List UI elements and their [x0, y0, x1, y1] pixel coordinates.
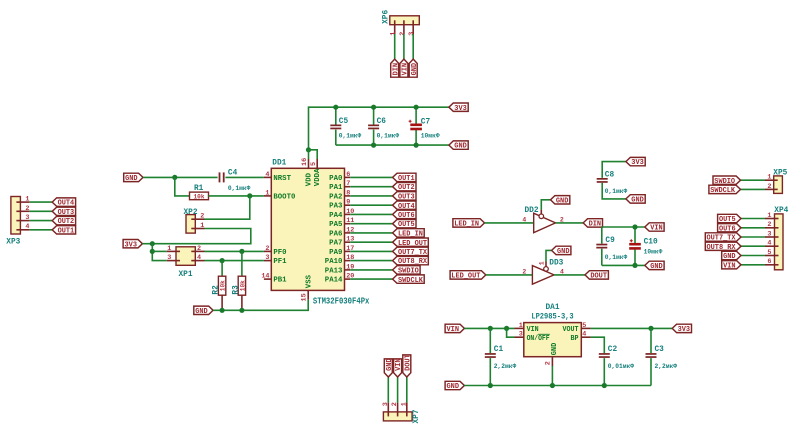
wire GND rail to VSS — [213, 300, 308, 311]
junction — [648, 326, 653, 331]
svg-text:DA1: DA1 — [545, 304, 559, 312]
wire GND rail — [602, 264, 645, 266]
svg-text:SWDCLK: SWDCLK — [398, 277, 424, 285]
svg-text:3: 3 — [767, 230, 771, 238]
net flag LED_OUT (DD3 in) — [450, 271, 486, 281]
connector XP2 — [184, 209, 205, 233]
net flag DOUT (DD3 out) — [585, 271, 608, 281]
wire — [603, 358, 605, 385]
wire 3V3 to XP1 pin1 — [152, 250, 167, 252]
wire PA to SWDCLK — [350, 278, 392, 280]
net flag OUT5 — [393, 220, 416, 230]
wire VIN to DA1 — [464, 327, 514, 329]
svg-text:15: 15 — [301, 293, 309, 301]
wire PA to OUT4 — [350, 204, 392, 206]
svg-text:ON/OFF: ON/OFF — [527, 335, 550, 343]
resistor R3 — [232, 276, 247, 310]
wire XP3 pin1 — [30, 201, 53, 203]
junction — [414, 143, 419, 148]
net flag VIN (XP4) — [722, 261, 741, 271]
wire DA1 gnd pin — [551, 366, 553, 386]
wire GND to XP4 — [741, 255, 765, 257]
svg-text:6: 6 — [346, 171, 350, 179]
svg-text:PA6: PA6 — [329, 230, 342, 238]
svg-text:DOUT: DOUT — [404, 354, 412, 371]
ground flag GND (DD2) — [551, 196, 570, 206]
wire — [415, 107, 417, 124]
svg-text:2: 2 — [200, 213, 204, 221]
ground flag GND (XP7) — [384, 358, 394, 377]
svg-text:4: 4 — [582, 331, 586, 339]
svg-text:GND: GND — [631, 197, 644, 205]
svg-text:VIN: VIN — [527, 326, 539, 334]
svg-text:10k: 10k — [194, 193, 205, 201]
svg-text:XP4: XP4 — [774, 207, 788, 215]
IC DD1 STM32F030F4Px — [261, 159, 370, 306]
svg-text:VSS: VSS — [305, 275, 313, 288]
wire SWDCLK to XP5 — [741, 188, 766, 190]
svg-text:LP2985-3,3: LP2985-3,3 — [531, 312, 573, 321]
resistor R2 — [213, 276, 228, 310]
svg-text:6: 6 — [767, 258, 771, 266]
net flag SWDIO — [393, 266, 421, 276]
wire — [489, 328, 491, 353]
wire VDD — [308, 150, 310, 159]
svg-text:1: 1 — [519, 322, 523, 330]
ground flag GND (DD3) — [552, 246, 571, 256]
wire 3V3 flag — [142, 243, 152, 245]
wire to ON/OFF — [507, 328, 515, 337]
svg-text:XP1: XP1 — [179, 271, 193, 279]
wire PA to OUT6 — [350, 213, 392, 215]
svg-text:OUT1: OUT1 — [58, 227, 75, 235]
svg-text:3: 3 — [25, 214, 29, 222]
junction — [488, 383, 493, 388]
svg-text:1: 1 — [265, 189, 269, 197]
svg-text:VIN: VIN — [395, 358, 403, 371]
wire XP2 pin1 to 3V3 — [152, 229, 251, 244]
svg-text:1: 1 — [25, 196, 29, 204]
net flag OUT2 — [393, 183, 416, 193]
svg-text:GND: GND — [195, 308, 208, 316]
svg-text:GND: GND — [125, 175, 138, 183]
svg-text:3: 3 — [265, 254, 269, 262]
svg-text:PA1: PA1 — [329, 184, 342, 192]
wire PA to LED_IN — [350, 232, 392, 234]
resistor R1 — [190, 185, 209, 201]
capacitor C8 — [597, 171, 628, 195]
svg-text:3V3: 3V3 — [631, 159, 644, 167]
svg-text:0,1мкФ: 0,1мкФ — [377, 133, 400, 140]
svg-text:0,1мкФ: 0,1мкФ — [605, 188, 628, 195]
power flag 3V3 (DA1 out) — [672, 324, 691, 334]
power flag VIN (DA1) — [445, 324, 464, 334]
svg-text:4: 4 — [25, 223, 29, 231]
ground flag GND — [449, 141, 468, 151]
svg-text:2: 2 — [767, 183, 771, 191]
svg-text:VIN: VIN — [402, 63, 410, 76]
junction — [220, 258, 225, 263]
power flag 3V3 (C8) — [626, 157, 645, 167]
svg-text:1: 1 — [167, 245, 171, 253]
svg-text:XP7: XP7 — [413, 409, 421, 423]
net flag OUT4 — [52, 198, 75, 208]
svg-text:PF1: PF1 — [273, 258, 286, 266]
svg-text:8: 8 — [346, 189, 350, 197]
wire PA to OUT5 — [350, 223, 392, 225]
capacitor C9 — [596, 237, 627, 261]
net flag DIN (DD2 out) — [583, 219, 602, 229]
net flag VIN (XP7) — [394, 358, 404, 377]
capacitor C5 — [330, 118, 361, 139]
junction — [602, 383, 607, 388]
wire PA to SWDIO — [350, 269, 392, 271]
wire — [601, 227, 603, 244]
svg-text:VDDA: VDDA — [314, 168, 322, 186]
wire — [373, 107, 375, 124]
svg-text:10мкФ: 10мкФ — [421, 133, 440, 140]
wire XP3 pin3 — [30, 220, 53, 222]
svg-text:GND: GND — [556, 197, 569, 205]
wire XP7 DOUT — [406, 377, 408, 403]
svg-text:BOOT0: BOOT0 — [273, 193, 295, 201]
svg-text:R1: R1 — [194, 185, 204, 193]
svg-text:XP6: XP6 — [382, 10, 390, 24]
svg-text:DIN: DIN — [589, 221, 602, 229]
wire 3V3 rail top — [309, 107, 449, 150]
svg-text:DD3: DD3 — [549, 260, 563, 268]
svg-text:SWDCLK: SWDCLK — [710, 187, 736, 195]
svg-text:1: 1 — [400, 402, 408, 406]
net flag SWDIO (XP5) — [713, 176, 741, 186]
connector XP4 — [765, 207, 789, 270]
wire XP7 GND — [387, 377, 389, 403]
wire 3V3 down to XP1 pin3 — [152, 244, 167, 261]
ground flag GND (VSS) — [194, 306, 213, 316]
wire R1 to BOOT0 — [209, 195, 264, 197]
svg-text:4: 4 — [767, 240, 771, 248]
wire OUT6 to XP4 — [741, 227, 765, 229]
svg-text:1: 1 — [539, 261, 546, 265]
svg-text:C5: C5 — [339, 118, 349, 126]
svg-text:5: 5 — [767, 249, 771, 257]
svg-text:VIN: VIN — [723, 262, 736, 270]
wire XP1 pin4 to PF1 — [205, 260, 264, 262]
svg-text:GND: GND — [650, 263, 663, 271]
junction VDD/VDDA — [306, 147, 311, 152]
svg-text:2: 2 — [399, 32, 407, 36]
wire XP6 to GND flag — [412, 34, 414, 59]
svg-text:1: 1 — [767, 174, 771, 182]
svg-text:PA2: PA2 — [329, 193, 342, 201]
svg-text:3V3: 3V3 — [454, 105, 467, 113]
svg-text:DOUT: DOUT — [590, 273, 607, 281]
svg-text:C1: C1 — [494, 346, 504, 354]
wire to R3 — [241, 251, 243, 276]
svg-text:3V3: 3V3 — [678, 326, 691, 334]
svg-text:3: 3 — [167, 254, 171, 262]
svg-text:0,1мкФ: 0,1мкФ — [228, 185, 251, 192]
wire OUT5 to XP4 — [741, 218, 765, 220]
svg-text:LED_IN: LED_IN — [454, 221, 479, 229]
svg-text:2: 2 — [522, 268, 526, 275]
svg-text:C6: C6 — [377, 118, 387, 126]
svg-text:DIN: DIN — [392, 63, 400, 76]
wire — [650, 328, 652, 353]
wire PA to OUT2 — [350, 186, 392, 188]
svg-text:14: 14 — [261, 273, 269, 281]
junction — [333, 105, 338, 110]
net flag OUT6 — [393, 210, 416, 220]
wire — [601, 249, 603, 266]
wire LED_OUT to DD3 — [486, 274, 533, 276]
net flag LED_OUT — [393, 238, 429, 248]
ground flag GND (C8) — [626, 195, 645, 205]
svg-text:2,2мкФ: 2,2мкФ — [655, 363, 678, 370]
net flag OUT7_TX (XP4) — [705, 233, 741, 243]
wire VOUT to 3V3 — [591, 327, 673, 329]
net flag OUT8_RX (XP4) — [705, 242, 741, 252]
svg-text:C4: C4 — [228, 170, 238, 178]
wire — [634, 227, 636, 243]
junction — [150, 249, 155, 254]
wire XP6 to DIN flag — [394, 34, 396, 59]
svg-text:C3: C3 — [655, 346, 665, 354]
svg-text:DD2: DD2 — [525, 207, 539, 215]
capacitor C4 — [219, 170, 251, 192]
net flag OUT4 — [393, 201, 416, 211]
svg-text:PA9: PA9 — [329, 249, 342, 257]
svg-text:BP: BP — [571, 335, 579, 343]
net flag GND (XP4) — [722, 251, 741, 261]
power flag VIN (C9) — [645, 223, 664, 233]
svg-text:GND: GND — [557, 248, 570, 256]
capacitor C1 — [485, 346, 517, 370]
svg-text:NRST: NRST — [273, 175, 291, 183]
net flag LED_IN (DD2 in) — [453, 219, 485, 229]
wire DD2 out — [556, 222, 584, 224]
svg-text:PA5: PA5 — [329, 221, 342, 229]
svg-text:GND: GND — [454, 143, 467, 151]
svg-text:0,1мкФ: 0,1мкФ — [339, 133, 362, 140]
junction — [220, 308, 225, 313]
svg-text:VIN: VIN — [447, 326, 460, 334]
junction — [172, 175, 177, 180]
wire LED_IN to DD2 — [485, 222, 534, 224]
junction — [371, 105, 376, 110]
connector XP7 — [382, 402, 421, 423]
svg-text:GND: GND — [447, 383, 460, 391]
wire PA to LED_OUT — [350, 241, 392, 243]
svg-text:2: 2 — [391, 402, 399, 406]
svg-text:PB1: PB1 — [273, 277, 286, 285]
net flag OUT1 — [52, 226, 75, 236]
connector XP1 — [167, 245, 205, 279]
wire XP1 pin2 to PF0 — [205, 250, 264, 252]
svg-text:VDD: VDD — [305, 173, 313, 186]
wire BP to C2 — [591, 337, 605, 353]
wire BOOT0 to XP2 pin2 — [205, 196, 250, 219]
junction — [632, 224, 637, 229]
wire PA to OUT8_RX — [350, 260, 392, 262]
net flag SWDCLK — [393, 275, 425, 285]
wire — [634, 250, 636, 266]
junction — [150, 241, 155, 246]
capacitor C6 — [368, 118, 399, 139]
connector XP5 — [765, 169, 788, 193]
svg-text:PA7: PA7 — [329, 240, 342, 248]
wire XP3 pin2 — [30, 210, 53, 212]
svg-text:PA14: PA14 — [325, 277, 343, 285]
svg-text:DD1: DD1 — [272, 159, 286, 167]
svg-text:7: 7 — [346, 180, 350, 188]
wire — [415, 130, 417, 146]
buffer DD2 — [522, 207, 564, 233]
svg-text:STM32F030F4Px: STM32F030F4Px — [313, 296, 370, 306]
capacitor C7 (polarized) — [409, 118, 440, 139]
svg-text:PA4: PA4 — [329, 212, 342, 220]
net flag OUT3 — [393, 192, 416, 202]
junction — [371, 143, 376, 148]
svg-text:2,2мкФ: 2,2мкФ — [494, 363, 517, 370]
svg-text:LED_OUT: LED_OUT — [451, 273, 481, 281]
wire GND rail DA1 — [464, 385, 651, 387]
wire to R2 — [221, 261, 223, 277]
svg-text:PA0: PA0 — [329, 175, 342, 183]
regulator DA1 LP2985-3.3 — [515, 304, 591, 366]
net flag DIN — [391, 59, 401, 77]
capacitor C3 — [646, 346, 678, 370]
wire DD3 out — [554, 274, 585, 276]
net flag DOUT (XP7) — [403, 354, 413, 377]
svg-text:3: 3 — [519, 331, 523, 339]
ground flag GND (NRST net) — [124, 173, 143, 183]
svg-text:4: 4 — [522, 216, 526, 223]
pin VDD 16 stub — [308, 159, 310, 168]
wire PA to OUT7_TX — [350, 250, 392, 252]
ground flag GND — [409, 59, 419, 77]
net flag OUT6 (XP4) — [718, 224, 741, 234]
wire GND rail — [336, 144, 449, 146]
svg-text:1: 1 — [200, 222, 204, 230]
net flag OUT7_TX — [393, 247, 429, 257]
wire C8 to GND — [602, 183, 626, 199]
wire OUT8_RX to XP4 — [741, 245, 765, 247]
junction — [239, 249, 244, 254]
svg-text:5: 5 — [582, 322, 586, 330]
svg-text:GND: GND — [386, 358, 394, 371]
wire VIN rail — [602, 226, 645, 228]
svg-text:C9: C9 — [605, 237, 615, 245]
wire 3V3 to C8 — [602, 162, 626, 178]
svg-text:2: 2 — [767, 221, 771, 229]
net flag OUT2 — [52, 216, 75, 226]
svg-text:GND: GND — [411, 62, 419, 75]
wire XP6 to VIN flag — [403, 34, 405, 59]
wire VIN to XP4 — [741, 264, 765, 266]
wire XP7 VIN — [397, 377, 399, 403]
capacitor C2 — [599, 346, 634, 370]
svg-text:C7: C7 — [421, 118, 431, 126]
net flag OUT1 — [393, 173, 416, 183]
wire DD2 gnd pin — [541, 200, 550, 210]
wire PA to OUT3 — [350, 195, 392, 197]
svg-text:VOUT: VOUT — [563, 326, 579, 334]
svg-text:10k: 10k — [220, 280, 228, 291]
svg-text:10мкФ: 10мкФ — [644, 248, 663, 255]
wire — [489, 358, 491, 385]
svg-text:1: 1 — [767, 212, 771, 220]
net flag SWDCLK (XP5) — [709, 185, 741, 195]
connector XP6 — [382, 10, 419, 36]
svg-text:2: 2 — [544, 361, 552, 365]
junction — [247, 193, 252, 198]
ground flag GND (DA1) — [445, 381, 464, 391]
wire VDDA — [309, 150, 318, 159]
junction — [239, 308, 244, 313]
power flag 3V3 (XP1) — [123, 240, 142, 250]
svg-text:0,01мкФ: 0,01мкФ — [608, 363, 634, 370]
net flag OUT8_RX — [393, 256, 429, 266]
svg-text:1: 1 — [390, 32, 398, 36]
net flag LED_IN — [393, 229, 425, 239]
wire PA to OUT1 — [350, 176, 392, 178]
wire — [335, 130, 337, 146]
net flag OUT3 — [52, 207, 75, 217]
junction — [550, 383, 555, 388]
buffer DD3 — [522, 260, 564, 285]
svg-text:PA3: PA3 — [329, 203, 342, 211]
junction — [414, 105, 419, 110]
wire — [650, 358, 652, 385]
svg-text:2: 2 — [265, 245, 269, 253]
wire XP3 pin4 — [30, 229, 53, 231]
svg-text:9: 9 — [346, 199, 350, 207]
ground flag GND (C9) — [645, 261, 664, 271]
svg-text:0,1мкФ: 0,1мкФ — [605, 254, 628, 261]
wire DD3 gnd pin — [546, 250, 552, 261]
svg-text:PA13: PA13 — [325, 267, 343, 275]
svg-text:C8: C8 — [605, 171, 615, 179]
junction — [488, 326, 493, 331]
net flag VIN — [400, 59, 410, 77]
junction — [632, 263, 637, 268]
svg-text:10k: 10k — [240, 280, 248, 291]
svg-text:16: 16 — [301, 158, 309, 166]
svg-text:4: 4 — [265, 171, 269, 179]
svg-text:XP2: XP2 — [184, 209, 198, 217]
wire SWDIO to XP5 — [741, 179, 766, 181]
svg-text:2: 2 — [197, 245, 201, 253]
svg-text:GND: GND — [551, 343, 559, 356]
wire C4 to NRST — [225, 176, 264, 178]
wire — [335, 107, 337, 124]
wire — [373, 130, 375, 146]
svg-text:XP5: XP5 — [773, 169, 787, 177]
svg-text:3: 3 — [382, 402, 390, 406]
svg-text:C10: C10 — [644, 239, 658, 247]
svg-text:3V3: 3V3 — [125, 241, 138, 249]
svg-text:4: 4 — [197, 254, 201, 262]
net flag OUT5 (XP4) — [718, 214, 741, 224]
svg-text:3: 3 — [408, 32, 416, 36]
junction — [504, 326, 509, 331]
svg-text:5: 5 — [310, 162, 318, 166]
svg-text:C2: C2 — [608, 346, 618, 354]
svg-text:2: 2 — [25, 205, 29, 213]
svg-text:PA10: PA10 — [325, 258, 343, 266]
capacitor C10 (polarized) — [629, 239, 662, 256]
